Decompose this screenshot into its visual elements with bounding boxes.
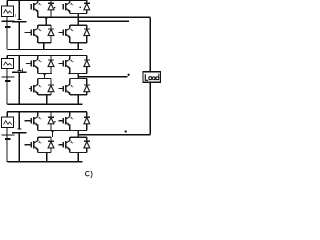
label S14 <box>70 29 73 31</box>
wire battery B1 to bottom rail <box>6 27 8 49</box>
node junction dot leg A cell 2 <box>43 73 45 75</box>
wire D31 cathode to top rail <box>50 112 52 118</box>
diode D12 antiparallel <box>48 29 54 36</box>
node bracket top of S32 <box>38 136 51 138</box>
label D11 <box>54 7 56 9</box>
IGBT S33 (top right) <box>59 117 70 126</box>
wire top DC rail cell 2 <box>7 55 87 57</box>
wire S14 collector lead <box>69 25 71 28</box>
wire output B cell 1 <box>78 20 129 22</box>
node bracket top of S22 <box>38 78 51 80</box>
wire S13 emitter lead <box>69 11 71 14</box>
wire D22 anode lead <box>50 92 52 95</box>
wire battery B3 to bottom rail <box>6 139 8 162</box>
label S31 <box>38 117 41 119</box>
node bracket bottom of S14 <box>70 42 87 44</box>
IGBT S32 (bottom left) <box>25 141 38 150</box>
IGBT S11 (top left) <box>31 3 38 12</box>
load box <box>143 72 161 82</box>
IGBT S22 (bottom left) <box>29 84 38 93</box>
wire D23 cathode to top rail <box>86 56 88 61</box>
wire bottom DC rail cell 1 <box>7 49 82 51</box>
label S21 <box>38 60 41 62</box>
wire top DC rail cell 3 <box>7 111 87 113</box>
wire D33 anode lead <box>86 124 88 131</box>
label Load <box>145 74 159 81</box>
wire D34 anode lead <box>86 148 88 153</box>
wire top DC rail cell 1 <box>7 0 87 2</box>
diode D13 antiparallel <box>84 3 90 10</box>
tick mark near capacitor C1 <box>14 14 16 17</box>
battery B1 negative plate <box>5 26 10 28</box>
wire leg stub to bottom rail <box>46 95 48 105</box>
wire PV3 top lead <box>6 112 8 117</box>
wire capacitor C1 top lead <box>18 1 20 20</box>
diode D21 antiparallel <box>48 60 54 67</box>
IGBT S23 (top right) <box>59 59 70 68</box>
node junction dot leg A cell 1 <box>45 17 47 19</box>
node bracket top of S14 <box>70 24 87 26</box>
IGBT S21 (top left) <box>26 59 38 68</box>
wire D13 anode lead <box>86 10 88 14</box>
wire D12 cathode lead <box>50 25 52 29</box>
wire bottom DC rail cell 2 <box>7 103 82 105</box>
diode D34 antiparallel <box>84 141 90 148</box>
wire S21 emitter lead <box>37 68 39 74</box>
wire S31 collector to top rail <box>37 112 39 117</box>
wire capacitor C2 to bottom rail <box>18 72 20 104</box>
wire D24 cathode lead <box>86 79 88 86</box>
label S12 <box>38 29 41 31</box>
wire D34 cathode lead <box>86 137 88 141</box>
node junction dot cell 2 bracket <box>68 72 70 74</box>
wire S22 emitter lead <box>37 93 39 95</box>
wire leg A stub cell 2 <box>44 74 46 79</box>
IGBT S12 (bottom left) <box>25 28 38 37</box>
wire output A cell 1 to right bus <box>38 16 151 18</box>
node bracket top-right pair cell 2 <box>70 73 87 75</box>
wire S32 emitter lead <box>37 149 39 153</box>
tick mark near capacitor C2 <box>22 68 24 71</box>
wire PV1 top lead <box>6 1 8 7</box>
wire D11 anode lead <box>50 10 52 18</box>
wire D14 cathode lead <box>86 25 88 29</box>
wire leg stub to bottom rail <box>77 43 79 50</box>
wire D14 anode lead <box>86 35 88 42</box>
node bracket top-right pair cell 1 <box>70 12 87 14</box>
wire leg stub to bottom rail <box>77 95 79 105</box>
wire leg stub to bottom rail <box>43 43 45 50</box>
caption c) <box>85 171 92 178</box>
node terminal dot cell 2 output <box>127 74 129 76</box>
node bracket bottom of S22 <box>38 94 51 96</box>
node bracket bottom of S24 <box>70 94 87 96</box>
battery B1 positive plate <box>2 20 15 22</box>
wire D12 anode lead <box>50 35 52 42</box>
wire S33 collector to top rail <box>69 112 71 117</box>
PV source PV1 <box>2 6 14 17</box>
diode D33 antiparallel <box>84 117 90 124</box>
wire D21 cathode to top rail <box>50 56 52 61</box>
wire D32 anode lead <box>50 148 52 153</box>
label S11 <box>38 3 41 5</box>
label S24 <box>70 85 73 87</box>
wire S11 emitter lead <box>37 11 39 18</box>
wire battery B2 to bottom rail <box>6 81 8 105</box>
label S33 <box>70 117 73 119</box>
capacitor C3 bottom plate <box>12 132 27 134</box>
diode D22 antiparallel <box>48 85 54 92</box>
wire D22 cathode lead <box>50 79 52 86</box>
wire S24 emitter lead <box>69 93 71 95</box>
wire bottom DC rail cell 3 <box>7 161 82 163</box>
IGBT S24 (bottom right) <box>59 84 70 93</box>
diode D24 antiparallel <box>84 85 90 92</box>
wire S14 emitter lead <box>69 37 71 43</box>
wire capacitor C1 to bottom rail <box>18 22 20 50</box>
wire S23 collector to top rail <box>69 56 71 60</box>
label S34 <box>70 141 73 143</box>
capacitor C3 top plate <box>17 128 21 130</box>
wire capacitor C3 to bottom rail <box>18 133 20 162</box>
wire output B cell 3 to right bus <box>78 134 150 136</box>
label S23 <box>70 60 73 62</box>
label S13 <box>70 3 73 5</box>
diode D31 antiparallel <box>48 117 54 124</box>
wire right bus lower segment <box>149 82 151 135</box>
node bracket bottom of S32 <box>38 152 51 154</box>
node bracket top of S34 <box>70 136 87 138</box>
wire output A cell 3 <box>38 129 87 131</box>
label D31 <box>54 121 56 123</box>
wire D31 anode lead <box>50 124 52 131</box>
battery B2 positive plate <box>2 76 15 78</box>
wire capacitor C3 top lead <box>18 112 20 129</box>
wire PV3 bottom lead <box>6 128 8 162</box>
wire leg B stub cell 1 <box>77 13 79 25</box>
battery B3 negative plate <box>5 138 10 140</box>
IGBT S13 (top right) <box>63 3 70 12</box>
wire S22 collector lead <box>37 79 39 85</box>
wire leg stub to bottom rail <box>77 153 79 162</box>
capacitor C2 bottom plate <box>12 71 27 73</box>
diode D11 antiparallel <box>48 3 54 10</box>
label S32 <box>38 141 41 143</box>
wire PV1 bottom lead <box>6 17 8 50</box>
wire S34 collector lead <box>69 137 71 141</box>
wire S24 collector lead <box>69 79 71 85</box>
node bracket top of S12 <box>38 24 51 26</box>
wire S33 emitter lead <box>69 125 71 131</box>
IGBT S31 (top left) <box>25 117 38 126</box>
wire right bus upper segment <box>149 17 151 72</box>
wire PV2 top lead <box>6 56 8 59</box>
wire D32 cathode lead <box>50 137 52 141</box>
wire S12 emitter lead <box>37 37 39 43</box>
node bracket bottom of S12 <box>38 42 51 44</box>
wire PV2 bottom lead <box>6 68 8 104</box>
wire S31 emitter lead <box>37 125 39 131</box>
wire S12 collector lead <box>37 25 39 28</box>
node terminal dot cell 3 output <box>125 130 127 132</box>
capacitor C1 bottom plate <box>12 21 27 23</box>
IGBT S14 (bottom right) <box>59 28 70 37</box>
wire S32 collector lead <box>37 137 39 141</box>
wire D13 cathode to top rail <box>86 1 88 4</box>
wire S21 collector to top rail <box>37 56 39 60</box>
node bracket bottom of S34 <box>70 152 87 154</box>
capacitor C2 top plate <box>17 69 21 71</box>
wire leg A stub cell 3 <box>52 130 54 137</box>
wire output B cell 2 <box>78 76 127 78</box>
wire output A cell 2 (short) <box>38 73 52 75</box>
battery B3 positive plate <box>2 134 15 136</box>
wire S23 emitter lead <box>69 68 71 74</box>
wire leg A stub cell 1 <box>45 17 47 25</box>
capacitor C1 top plate <box>17 19 21 21</box>
wire D21 anode lead <box>50 66 52 73</box>
wire D33 cathode to top rail <box>86 112 88 118</box>
IGBT S34 (bottom right) <box>59 141 70 150</box>
diode D32 antiparallel <box>48 141 54 148</box>
diode D23 antiparallel <box>84 60 90 67</box>
PV source PV2 <box>2 59 14 69</box>
label S22 <box>38 85 41 87</box>
wire S11 collector to top rail <box>37 1 39 3</box>
diode D14 antiparallel <box>84 29 90 36</box>
battery B2 negative plate <box>5 80 10 82</box>
PV source PV3 <box>2 117 14 128</box>
label D13 <box>79 7 81 9</box>
node bracket top of S24 <box>70 78 87 80</box>
wire leg B stub cell 3 <box>77 130 79 137</box>
wire leg stub to bottom rail <box>46 153 48 162</box>
wire capacitor C2 top lead <box>18 56 20 71</box>
wire leg B stub cell 2 <box>77 74 79 79</box>
node junction dot leg A cell 3 <box>51 130 53 132</box>
wire D24 anode lead <box>86 92 88 95</box>
wire S34 emitter lead <box>69 149 71 153</box>
wire D11 cathode to top rail <box>50 1 52 4</box>
wire D23 anode lead <box>86 66 88 73</box>
wire S13 collector to top rail <box>69 1 71 3</box>
